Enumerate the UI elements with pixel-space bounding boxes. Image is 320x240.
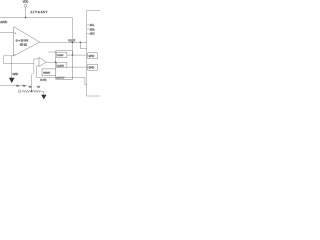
wire op-amp + input — [0, 31, 14, 33]
wire ALERT to GPIO — [67, 66, 88, 68]
wire R2 to ground — [41, 91, 43, 95]
pin GPIO2 — [88, 64, 98, 70]
node divider tap — [31, 90, 33, 92]
wire divider left — [20, 90, 23, 92]
resistor R2 — [33, 90, 42, 92]
svg-text:G = 25 V/V: G = 25 V/V — [16, 39, 29, 43]
svg-text:RESET: RESET — [43, 73, 51, 75]
pin COMP — [57, 52, 67, 57]
svg-text:GND: GND — [13, 73, 19, 76]
ground arrow bottom — [41, 95, 46, 100]
node VOUT branch — [80, 42, 82, 44]
pin ALERT — [57, 62, 67, 67]
terminal circle feedback divider — [18, 90, 21, 93]
node supply junction — [25, 17, 27, 19]
svg-text:COMP: COMP — [57, 55, 64, 57]
svg-text:OUTPUT: OUTPUT — [56, 77, 65, 79]
wire buffer + stub — [34, 58, 39, 60]
node supply at COMP wire — [72, 54, 74, 56]
op-amp U1 — [14, 27, 40, 57]
wire COMP to GPIO — [67, 54, 88, 56]
svg-text:SDA: SDA — [90, 28, 95, 31]
svg-text:(0.1%): (0.1%) — [40, 79, 46, 81]
svg-text:GPIO: GPIO — [89, 56, 95, 58]
svg-text:ADC: ADC — [90, 33, 95, 36]
pin GPIO1 — [88, 53, 98, 59]
ground arrow left — [9, 78, 15, 83]
node supply crosses VOUT — [72, 42, 74, 44]
wire ground rail left — [0, 84, 27, 86]
svg-text:2.7 V to 5.5 V: 2.7 V to 5.5 V — [30, 10, 47, 14]
wire op-amp - input — [4, 55, 14, 57]
controller box — [87, 10, 101, 96]
wire VOUT branch to controller — [80, 42, 86, 48]
svg-text:100 kΩ: 100 kΩ — [20, 45, 28, 47]
wire buffer + input vertical — [32, 59, 34, 91]
pin SDA — [87, 28, 95, 31]
svg-text:ALERT: ALERT — [57, 65, 65, 68]
svg-text:SCL: SCL — [90, 25, 95, 27]
wire buffer output — [46, 61, 56, 63]
supply terminal VDD — [23, 0, 29, 7]
IC U3 — [56, 51, 73, 80]
op-amp U2 buffer — [39, 57, 46, 66]
wire OUTPUT net — [37, 77, 87, 84]
wire buffer - input — [37, 65, 40, 77]
wire stub row1 — [48, 51, 56, 53]
pin RESET — [42, 69, 56, 76]
wire AVDD rail — [0, 17, 72, 19]
wire GND drop from - input — [11, 56, 13, 79]
wire VOUT — [40, 41, 87, 43]
resistor R1 — [22, 90, 31, 92]
node buffer output at IC — [55, 61, 57, 63]
svg-text:AVDD: AVDD — [0, 20, 7, 24]
pin SCL — [87, 25, 95, 27]
wire feedback left leg — [4, 56, 34, 64]
wire supply to IC — [71, 18, 73, 56]
svg-text:GPIO: GPIO — [89, 68, 95, 70]
svg-text:VDD: VDD — [23, 0, 29, 4]
pin ADC — [87, 33, 95, 36]
wire supply drop — [25, 7, 27, 17]
